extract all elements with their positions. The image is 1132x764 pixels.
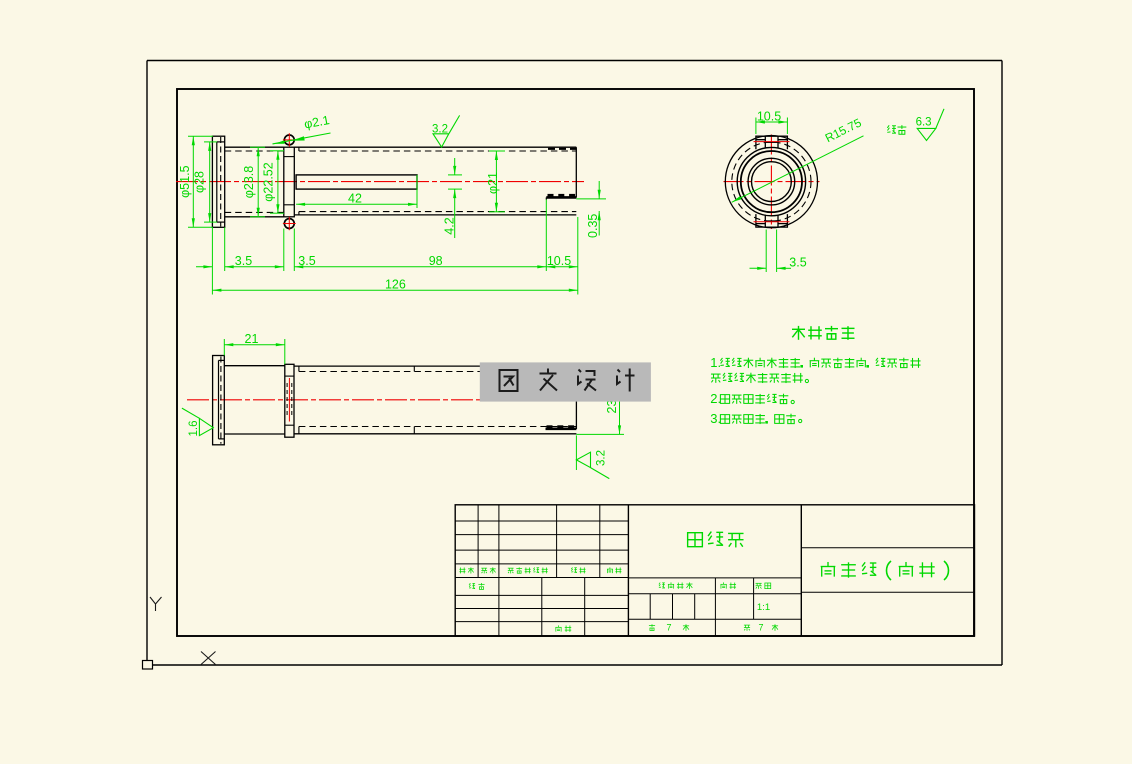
dim 126 <box>212 289 577 291</box>
top view: collar top hole circle <box>284 135 294 145</box>
svg-text:10.5: 10.5 <box>547 254 571 268</box>
svg-text:3.2: 3.2 <box>596 450 608 466</box>
middle view: collar rect <box>285 364 294 437</box>
dim 10.5 circular <box>755 118 757 135</box>
title block outer <box>455 505 974 636</box>
dim 3.5 second <box>275 265 284 268</box>
tech req line2 <box>711 374 721 383</box>
dim phi28 <box>204 141 217 143</box>
svg-text:φ21: φ21 <box>486 172 500 194</box>
top view: keyway slot rect <box>296 175 417 189</box>
watermark char ji <box>617 369 635 392</box>
svg-text:42: 42 <box>348 191 362 205</box>
circular view: bore circle r19.9 <box>752 162 792 202</box>
surface finish 1.6 left <box>182 408 213 436</box>
dim 10.5 <box>546 266 578 268</box>
dim phi23.8 <box>250 146 265 148</box>
middle view: hidden slot end ticks <box>413 366 415 371</box>
circular view: outer circle <box>725 136 817 228</box>
svg-text:4.2: 4.2 <box>442 217 456 234</box>
middle view: collar hidden hole dashed <box>286 383 288 417</box>
circular view: top slot feature <box>756 136 788 149</box>
svg-text:21: 21 <box>245 332 259 346</box>
title block right section lines <box>801 547 974 549</box>
middle view: neck cylinder <box>224 365 284 367</box>
circular view: circle r30.6 <box>741 151 802 212</box>
title block sheet labels <box>649 624 655 630</box>
middle view: end recess thick line <box>546 427 577 430</box>
leader phi2.1 <box>273 133 331 144</box>
surface finish 3.2 bottom right <box>575 435 577 470</box>
title block small cells <box>628 593 801 595</box>
svg-text:0.35: 0.35 <box>586 214 600 238</box>
svg-text:1.6: 1.6 <box>188 421 200 437</box>
tech requirements title <box>792 326 805 340</box>
top view: tube body <box>294 146 576 148</box>
title block sheji label <box>469 583 475 588</box>
circular view: red crosshair <box>724 181 820 183</box>
middle view: tube body <box>294 365 576 367</box>
axis label Y <box>150 597 162 611</box>
dim 98 <box>537 265 546 268</box>
dim 42 <box>416 175 418 208</box>
dim 21 <box>223 339 225 356</box>
circular view: circle r34 <box>737 147 805 215</box>
surface note: qiyu 6.3 <box>887 125 896 133</box>
top view: collar rect <box>284 147 295 217</box>
circular view: bore circle r23.3 <box>748 158 795 205</box>
title block material: tan qian wei <box>688 533 703 547</box>
svg-text:φ22.52: φ22.52 <box>261 162 275 201</box>
top view: neck cylinder <box>225 146 284 148</box>
middle view: flange hidden dashed <box>220 357 222 444</box>
inner border frame <box>177 89 974 636</box>
watermark char she <box>578 370 596 391</box>
circular view: dashed bolt circle <box>732 142 811 221</box>
top view: red centerline <box>176 181 584 183</box>
title block lower-left grid <box>455 594 628 596</box>
svg-text:3.5: 3.5 <box>298 254 315 268</box>
svg-text:1:1: 1:1 <box>757 602 770 613</box>
bottom dim row extension lines <box>211 227 213 294</box>
dim 23 <box>576 433 624 435</box>
dim 4.2 <box>448 174 462 176</box>
middle view: red centerline <box>187 399 583 401</box>
middle view: tube bore dashed <box>299 371 577 373</box>
svg-text:7: 7 <box>666 623 671 633</box>
watermark char tu <box>500 370 518 391</box>
title block riqi label <box>555 625 561 631</box>
dim phi51.5 <box>188 135 213 137</box>
watermark box <box>480 362 651 401</box>
top view: collar bottom hole circle <box>284 219 294 229</box>
svg-text:126: 126 <box>385 278 406 292</box>
svg-text:3.: 3. <box>710 411 721 426</box>
dim phi22.52 <box>270 150 284 152</box>
top view: flange outer rect <box>212 136 224 227</box>
top view: neck bore dashed <box>225 150 284 152</box>
dim 3.5 circular <box>765 230 767 273</box>
top view: end recess thick line bottom <box>546 196 576 199</box>
outer border frame <box>147 60 1002 62</box>
dim phi21 <box>489 150 505 152</box>
surface finish 3.2 top <box>433 115 460 147</box>
svg-text:φ51.5: φ51.5 <box>178 165 192 197</box>
title block upper-left grid <box>455 520 628 522</box>
top view: tube bore dashed <box>299 150 576 152</box>
axis label X <box>201 652 216 665</box>
leader R15.75 <box>732 136 864 203</box>
middle view: flange inner step <box>219 359 225 361</box>
part name: zhong kong gan (di zuo) <box>821 562 836 577</box>
top view: flange hidden hole dashed <box>220 137 222 227</box>
svg-text:φ23.8: φ23.8 <box>242 166 256 198</box>
middle view: flange outer rect <box>213 356 225 445</box>
title block mid label row <box>628 577 801 579</box>
UCS origin square <box>143 661 153 670</box>
title block row5 labels <box>459 567 465 573</box>
svg-text:φ28: φ28 <box>193 171 207 193</box>
dim 0.35 <box>576 198 606 200</box>
dim 3.5 first <box>196 266 212 268</box>
svg-text:3.5: 3.5 <box>235 254 252 268</box>
svg-text:1.: 1. <box>710 355 721 370</box>
svg-text:2.: 2. <box>710 391 721 406</box>
svg-text:6.3: 6.3 <box>916 117 932 129</box>
svg-text:3.2: 3.2 <box>432 123 448 135</box>
title block main verticals <box>627 505 629 636</box>
top view: flange inner step <box>217 141 225 143</box>
svg-text:3.5: 3.5 <box>789 255 806 269</box>
svg-text:98: 98 <box>429 254 443 268</box>
watermark char wen <box>540 369 558 391</box>
svg-text:7: 7 <box>758 623 763 633</box>
svg-text:10.5: 10.5 <box>757 109 781 123</box>
circular view: bottom slot feature <box>756 214 788 227</box>
top view: end recess thick dash top <box>548 148 576 150</box>
